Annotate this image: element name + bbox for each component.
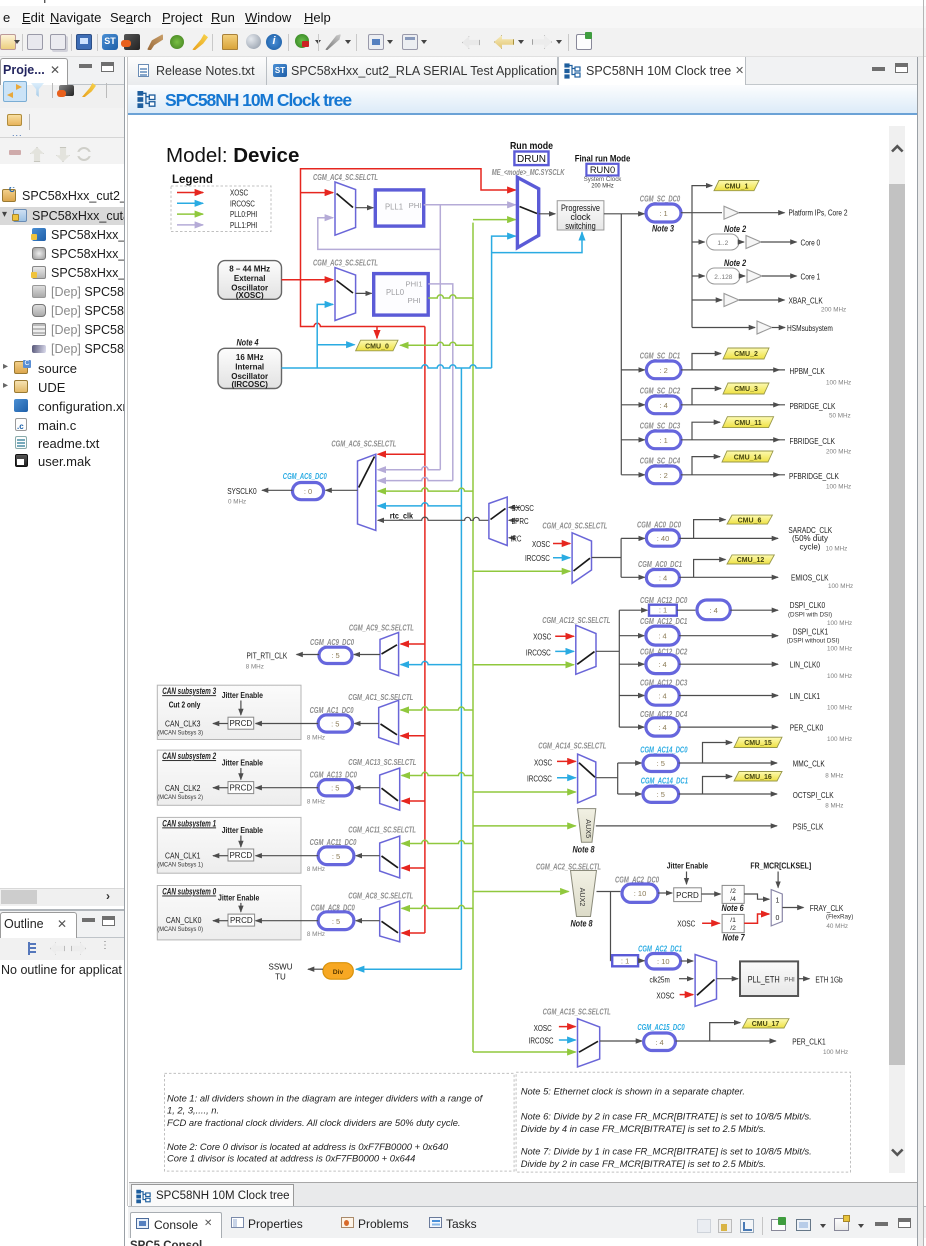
svg-text:8 MHz: 8 MHz [307, 735, 325, 742]
svg-text:: 1: : 1 [621, 956, 629, 965]
mux CGM_AC13_SC.SELCTL [348, 758, 416, 810]
svg-text:CGM_AC12_SC.SELCTL: CGM_AC12_SC.SELCTL [542, 616, 610, 625]
svg-text:CMU_6: CMU_6 [738, 517, 762, 524]
svg-text:FCD are fractional clock divid: FCD are fractional clock dividers. All c… [167, 1117, 461, 1128]
svg-text:: 1: : 1 [660, 436, 668, 445]
output LIN_CLK1 [790, 691, 852, 711]
output ETH 1Gb [798, 974, 843, 984]
svg-text:Divide by 4 in case FR_MCR[BIT: Divide by 4 in case FR_MCR[BITRATE] is s… [521, 1123, 766, 1134]
svg-text:cycle): cycle) [800, 542, 821, 551]
svg-text:100 MHz: 100 MHz [827, 673, 852, 680]
svg-text:: 5: : 5 [331, 720, 339, 729]
svg-text:100 MHz: 100 MHz [828, 583, 853, 590]
svg-text:RUN0: RUN0 [590, 165, 615, 175]
divider CGM_AC2_DC0 [615, 875, 672, 902]
svg-text:10 MHz: 10 MHz [826, 546, 848, 553]
svg-text:Note 5: Ethernet clock is show: Note 5: Ethernet clock is shown in a sep… [521, 1086, 745, 1097]
svg-text:: 1: : 1 [659, 209, 667, 218]
svg-text:Note 6: Note 6 [722, 903, 744, 913]
svg-text:: 40: : 40 [657, 534, 670, 543]
wire red branch to AC8 [402, 932, 425, 934]
output LIN_CLK0 [790, 660, 852, 680]
output PSI5_CLK [596, 821, 824, 831]
svg-text:DSPI_CLK1: DSPI_CLK1 [793, 627, 829, 637]
svg-text:PCRD: PCRD [676, 891, 699, 900]
svg-text:Final run Mode: Final run Mode [575, 153, 631, 163]
wire red branch to AC11 [402, 867, 425, 869]
divider CGM_AC1_DC0 [256, 706, 379, 742]
CMU_1 flag [714, 181, 759, 191]
svg-text:DRUN: DRUN [517, 154, 546, 165]
svg-text:PLL0: PLL0 [386, 287, 404, 297]
svg-text:: 4: : 4 [658, 692, 666, 701]
divider CGM_SC_DC2 [621, 387, 785, 414]
svg-text:Div: Div [333, 969, 344, 976]
wire XOSC branch into AC4 [301, 192, 334, 194]
wire XOSC trunk vertical [424, 327, 426, 934]
disabled row [0, 138, 124, 164]
svg-text:Note 4: Note 4 [236, 338, 258, 348]
run mode DRUN box [510, 140, 553, 165]
right console icons [697, 1219, 711, 1233]
svg-text:100 MHz: 100 MHz [823, 1049, 848, 1056]
buffer Platform [724, 206, 848, 219]
divider CGM_AC13_DC0 [256, 770, 380, 805]
svg-text:(MCAN Subsys 3): (MCAN Subsys 3) [157, 730, 203, 737]
divider Div SSWU [269, 962, 462, 981]
output MMC_CLK [793, 758, 844, 779]
svg-text:(DSPI with DSI): (DSPI with DSI) [788, 611, 832, 618]
svg-text:IRCOSC: IRCOSC [230, 199, 255, 208]
svg-text:PRCD: PRCD [229, 719, 252, 728]
divider /2 /4 Note 6 [722, 885, 770, 913]
svg-text:100 MHz: 100 MHz [826, 379, 851, 386]
svg-text:Note 7: Note 7 [723, 932, 746, 942]
CMU_0 monitor flag [356, 340, 398, 351]
svg-text:CGM_SC_DC4: CGM_SC_DC4 [640, 457, 681, 466]
mux ME_mode_MC.SYSCLK [492, 168, 566, 248]
divider CGM_AC14_DC1 [618, 777, 777, 803]
svg-text:: 4: : 4 [655, 1038, 663, 1047]
svg-text:Divide by 2 in case FR_MCR[BIT: Divide by 2 in case FR_MCR[BITRATE] is s… [521, 1158, 766, 1169]
wire lavender2 into AC6 [378, 477, 453, 480]
svg-text:Note 8: Note 8 [570, 919, 592, 929]
svg-text:CAN subsystem 3: CAN subsystem 3 [162, 685, 216, 696]
svg-text:40 MHz: 40 MHz [826, 923, 848, 930]
svg-text:CGM_AC9_DC0: CGM_AC9_DC0 [310, 638, 354, 647]
svg-text:CGM_AC15_SC.SELCTL: CGM_AC15_SC.SELCTL [543, 1008, 611, 1017]
svg-text:1..2: 1..2 [717, 240, 728, 247]
svg-text:XOSC: XOSC [533, 632, 551, 641]
wire green branch to AC12 [473, 664, 574, 666]
wire green branch to AUX2 [473, 891, 569, 893]
svg-text:(FlexRay): (FlexRay) [826, 914, 853, 921]
svg-text:CMU_12: CMU_12 [737, 557, 765, 564]
wire green branch to AUX5 [473, 825, 576, 827]
svg-text:: 4: : 4 [658, 723, 666, 732]
CMU_6 flag [727, 515, 772, 524]
svg-text:PBRIDGE_CLK: PBRIDGE_CLK [790, 401, 836, 411]
svg-text:200 MHz: 200 MHz [826, 449, 851, 456]
svg-text:PHI: PHI [408, 296, 421, 305]
svg-text:PLL0:PHI: PLL0:PHI [230, 210, 257, 219]
divider CGM_AC8_DC0 [256, 903, 380, 938]
svg-text:PFBRIDGE_CLK: PFBRIDGE_CLK [789, 471, 839, 481]
svg-text:SXOSC: SXOSC [512, 504, 535, 513]
svg-text:SYSCLK0: SYSCLK0 [227, 486, 257, 496]
wire IRCOSC main line [282, 365, 492, 368]
svg-text:CMU_17: CMU_17 [752, 1021, 780, 1028]
wire PLL0 PHI green to trunk and ME mux [428, 220, 515, 298]
svg-text:Jitter Enable: Jitter Enable [222, 759, 264, 768]
svg-text:Note 1: all dividers shown in: Note 1: all dividers shown in the diagra… [167, 1092, 484, 1103]
svg-text:: 4: : 4 [658, 632, 666, 641]
output SYSCLK0 [227, 486, 292, 505]
svg-text:: 4: : 4 [660, 401, 668, 410]
CMU_3 flag [723, 383, 769, 394]
wire PLL1 PHI lavender to ME mux [424, 204, 516, 206]
node Core0 divider [692, 213, 820, 328]
CMU_17 flag [742, 1019, 789, 1028]
mux CGM_AC11_SC.SELCTL [348, 826, 416, 878]
svg-text:200 MHz: 200 MHz [821, 307, 846, 314]
svg-text:/1: /1 [730, 917, 736, 924]
jitter enable label FlexRay [667, 862, 709, 885]
svg-text:8 MHz: 8 MHz [307, 931, 325, 938]
svg-text:Note 8: Note 8 [572, 844, 594, 854]
mux CGM_AC9_SC.SELCTL [349, 623, 414, 675]
svg-text:IRCOSC: IRCOSC [529, 1037, 554, 1046]
svg-text:0 MHz: 0 MHz [228, 498, 246, 505]
label FR_MCR[CLKSEL] [750, 862, 811, 888]
svg-text:AUX5: AUX5 [584, 819, 593, 838]
mux CGM_AC3_SC.SELCTL [313, 258, 378, 320]
PLL0 box [374, 274, 429, 316]
wire XOSC bottom run to trunk [301, 280, 425, 327]
svg-text:clk25m: clk25m [650, 975, 671, 984]
svg-text:CMU_0: CMU_0 [365, 343, 389, 350]
svg-text:CAN_CLK0: CAN_CLK0 [166, 915, 202, 925]
CAN subsystem 1 box [157, 817, 301, 873]
divider CGM_SC_DC0 [640, 195, 681, 234]
wire IRCOSC branch to CMU_0 left [317, 344, 354, 346]
bottom scrollbar of project view [0, 888, 124, 906]
output FBRIDGE_CLK [770, 436, 851, 456]
divider CGM_AC2_DC1 [611, 944, 693, 969]
wire green branch to AC8 [402, 905, 473, 908]
output PIT_RTI_CLK [246, 650, 319, 670]
progressive clock switching box [557, 201, 604, 231]
output PER_CLK1 [792, 1037, 848, 1056]
mux CGM_AC4_SC.SELCTL [313, 173, 378, 235]
wire XOSC arrow down into CMU_0 [376, 327, 378, 339]
divider CGM_SC_DC4 [621, 457, 785, 484]
svg-text:CGM_AC13_SC.SELCTL: CGM_AC13_SC.SELCTL [348, 758, 416, 767]
wire green into AC6 [378, 488, 473, 491]
wire cyan branch to AC9 [401, 661, 462, 664]
svg-text:CGM_SC_DC0: CGM_SC_DC0 [640, 195, 681, 204]
svg-text:CGM_AC14_SC.SELCTL: CGM_AC14_SC.SELCTL [538, 742, 606, 751]
svg-text:CGM_AC13_DC0: CGM_AC13_DC0 [310, 770, 358, 779]
svg-text:100 MHz: 100 MHz [827, 704, 852, 711]
CMU_14 flag [722, 451, 773, 462]
oscillator XOSC box [218, 261, 282, 301]
output FRAY_CLK [782, 903, 853, 930]
note 4 label [236, 338, 258, 348]
wire red branch to AC13 [402, 800, 425, 802]
svg-text:/2: /2 [730, 888, 736, 895]
wire PLL1:PHI lavender trunk [439, 249, 441, 469]
wire AC14 output tee [596, 763, 618, 794]
CAN subsystem 2 box [157, 750, 301, 805]
CMU_12 flag [727, 555, 774, 564]
console [128, 1206, 926, 1246]
svg-text:/4: /4 [730, 896, 736, 903]
CAN subsystem 3 box [157, 685, 301, 739]
svg-text:CGM_AC14_DC1: CGM_AC14_DC1 [641, 777, 689, 786]
divider CGM_AC0_DC0 [621, 520, 778, 547]
svg-text:CAN_CLK3: CAN_CLK3 [165, 719, 201, 729]
node Core1 divider [692, 258, 820, 284]
svg-text:: 5: : 5 [657, 790, 665, 799]
svg-text:PLL1: PLL1 [385, 202, 403, 212]
svg-text:CGM_AC15_DC0: CGM_AC15_DC0 [637, 1023, 685, 1032]
mux AUX2 CGM_AC2_SC.SELCTL [536, 862, 601, 928]
wire XOSC red frame: up-over to ME mux and bottom run [301, 169, 516, 280]
output OCTSPI_CLK [793, 790, 844, 810]
svg-text:: 4: : 4 [659, 574, 667, 583]
svg-text:CGM_AC3_SC.SELCTL: CGM_AC3_SC.SELCTL [313, 258, 378, 267]
svg-text:CMU_14: CMU_14 [734, 454, 762, 461]
output PER_CLK0 [790, 723, 852, 743]
svg-text:PRCD: PRCD [229, 851, 252, 860]
PLL1 box [375, 190, 423, 226]
svg-text:FRAY_CLK: FRAY_CLK [810, 903, 844, 913]
svg-text:XOSC: XOSC [532, 540, 550, 549]
wire progressive output to SC_DC0 [604, 213, 645, 215]
output PBRIDGE_CLK [770, 401, 851, 420]
wire AC12 output tee [596, 610, 619, 727]
svg-text:ETH 1Gb: ETH 1Gb [815, 974, 843, 984]
svg-text:CGM_SC_DC1: CGM_SC_DC1 [640, 352, 681, 361]
svg-text:FBRIDGE_CLK: FBRIDGE_CLK [790, 436, 836, 446]
svg-text:CAN subsystem 0: CAN subsystem 0 [162, 886, 216, 897]
svg-text:PER_CLK1: PER_CLK1 [792, 1037, 826, 1047]
editor tabs [128, 57, 918, 85]
wire green branch to AC11 [402, 840, 473, 843]
svg-text:CMU_2: CMU_2 [734, 351, 758, 358]
svg-text:PER_CLK0: PER_CLK0 [790, 723, 824, 733]
divider CGM_AC11_DC0 [256, 838, 380, 873]
output DSPI_CLK1 [787, 627, 853, 653]
mux CGM_AC8_SC.SELCTL [348, 891, 413, 942]
mux AUX5 [572, 809, 595, 855]
svg-text:CGM_AC0_DC1: CGM_AC0_DC1 [638, 560, 682, 569]
svg-text:IRCOSC: IRCOSC [527, 774, 552, 783]
svg-text:HPBM_CLK: HPBM_CLK [790, 366, 826, 376]
mux rtc source [489, 497, 534, 546]
svg-text:Jitter Enable: Jitter Enable [218, 893, 260, 902]
svg-text:(MCAN Subsys 2): (MCAN Subsys 2) [157, 794, 203, 801]
wire green branch to AC14 [473, 791, 576, 793]
wire XOSC output to AC3 mux [282, 279, 334, 281]
wire ME mux output [539, 213, 556, 215]
divider CGM_AC12_DC0 [619, 596, 778, 620]
svg-text:AUX2: AUX2 [578, 888, 587, 907]
svg-text:CGM_AC8_SC.SELCTL: CGM_AC8_SC.SELCTL [348, 891, 413, 900]
divider CGM_AC15_DC0 [600, 1023, 776, 1051]
buffer XBAR [692, 294, 846, 314]
divider CGM_AC12_DC4 [619, 710, 778, 736]
svg-text:XOSC: XOSC [534, 1024, 552, 1033]
svg-text:CGM_AC0_SC.SELCTL: CGM_AC0_SC.SELCTL [542, 521, 607, 530]
svg-text:: 4: : 4 [658, 660, 666, 669]
divider CGM_AC0_DC1 [621, 560, 778, 586]
view toolbar row2 [0, 108, 124, 137]
svg-text:Note 2: Note 2 [724, 258, 746, 268]
wire IRCOSC up branch to AC3 and CMU_0 [317, 304, 333, 368]
svg-text:: 5: : 5 [331, 784, 339, 793]
CMU_2 flag [723, 348, 769, 359]
svg-text:CAN subsystem 1: CAN subsystem 1 [162, 817, 216, 828]
CMU_16 flag [734, 772, 782, 782]
svg-text:PHI1: PHI1 [406, 280, 423, 289]
svg-text:8 MHz: 8 MHz [307, 798, 325, 805]
svg-text:OCTSPI_CLK: OCTSPI_CLK [793, 790, 834, 800]
svg-text:: 5: : 5 [331, 651, 339, 660]
wire PLL0 PHI1 lavender trunk [428, 284, 453, 481]
wire AC0 output tee [592, 538, 622, 577]
svg-text:CMU_11: CMU_11 [734, 420, 761, 427]
svg-text:IRC: IRC [511, 534, 522, 543]
wire SC divider feed vertical [620, 214, 622, 475]
mux CGM_AC12_SC.SELCTL [526, 616, 611, 674]
divider CGM_AC14_DC0 [618, 743, 777, 772]
mux CGM_AC15_SC.SELCTL [529, 1008, 611, 1067]
svg-text:PLL_ETH: PLL_ETH [748, 974, 780, 984]
svg-text:CAN_CLK1: CAN_CLK1 [165, 850, 201, 860]
svg-text:LIN_CLK0: LIN_CLK0 [790, 660, 820, 670]
svg-text:Cut 2 only: Cut 2 only [169, 701, 201, 710]
svg-text:SSWU: SSWU [269, 962, 293, 971]
wire AC3 output to PLL0 [356, 292, 372, 294]
svg-text:PRCD: PRCD [229, 783, 252, 792]
PLL_ETH box [717, 961, 799, 996]
svg-text:: 2: : 2 [660, 471, 668, 480]
svg-text:Note 2: Note 2 [724, 224, 746, 234]
legend box [171, 174, 271, 232]
svg-text:200 MHz: 200 MHz [591, 183, 613, 190]
notes box left [165, 1073, 515, 1171]
svg-text:XOSC: XOSC [656, 992, 674, 1001]
svg-text:XOSC: XOSC [534, 758, 552, 767]
svg-text:CMU_3: CMU_3 [734, 386, 758, 393]
svg-text:PHI: PHI [409, 201, 422, 210]
svg-text:16 MHz: 16 MHz [236, 353, 264, 362]
menu bar [0, 6, 926, 28]
svg-text:CMU_15: CMU_15 [744, 740, 772, 747]
svg-text:CGM_AC0_DC0: CGM_AC0_DC0 [637, 520, 681, 529]
svg-text:8 MHz: 8 MHz [307, 866, 325, 873]
svg-text:rtc_clk: rtc_clk [390, 510, 413, 520]
wire red into AC6 [378, 453, 425, 455]
wire AUX2 output tee [597, 892, 621, 961]
svg-text:: 2: : 2 [660, 366, 668, 375]
svg-text:100 MHz: 100 MHz [827, 620, 852, 627]
svg-text:CGM_AC6_DC0: CGM_AC6_DC0 [283, 472, 327, 481]
window title bar (clipped) [0, 0, 926, 4]
output EMIOS_CLK [791, 572, 853, 589]
svg-text:IRCOSC: IRCOSC [525, 554, 550, 563]
svg-text:CMU_16: CMU_16 [744, 774, 772, 781]
svg-text:Jitter Enable: Jitter Enable [222, 691, 264, 700]
svg-text:: 4: : 4 [709, 606, 717, 615]
svg-text:: 0: : 0 [304, 487, 312, 496]
svg-text:FR_MCR[CLKSEL]: FR_MCR[CLKSEL] [750, 862, 811, 871]
svg-text:Core 1: Core 1 [801, 271, 821, 281]
svg-text:/2: /2 [730, 925, 736, 932]
svg-text:: 5: : 5 [332, 917, 340, 926]
svg-text:Legend: Legend [172, 174, 213, 186]
svg-text:8 MHz: 8 MHz [825, 803, 843, 810]
output SARADC_CLK [788, 525, 847, 553]
svg-text:Note 6: Divide by 2 in case FR: Note 6: Divide by 2 in case FR_MCR[BITRA… [521, 1111, 812, 1122]
svg-text:Jitter Enable: Jitter Enable [667, 862, 709, 871]
svg-text:LIN_CLK1: LIN_CLK1 [790, 691, 820, 701]
wire green branch to AC13 [402, 772, 473, 775]
divider CGM_AC6_DC0 [283, 472, 358, 500]
svg-text:Note 7: Divide by 1 in case FR: Note 7: Divide by 1 in case FR_MCR[BITRA… [521, 1145, 812, 1156]
svg-text:(IRCOSC): (IRCOSC) [231, 380, 268, 389]
wire DC0 output with CMU_1 branch [681, 186, 722, 213]
svg-text:50 MHz: 50 MHz [829, 413, 851, 420]
svg-text:: 5: : 5 [657, 759, 665, 768]
svg-text:PIT_RTI_CLK: PIT_RTI_CLK [247, 650, 288, 660]
divider CGM_SC_DC1 [621, 352, 785, 379]
wire green branch to AC1 [401, 707, 473, 710]
outline panel [0, 911, 124, 938]
divider CGM_AC9_DC0 [310, 638, 380, 664]
wire red branch to AC1 [401, 735, 425, 737]
output HPBM_CLK [770, 366, 851, 387]
editor scrollbar arrows [892, 146, 903, 1155]
output DSPI_CLK0 [788, 600, 852, 627]
svg-text:Internal: Internal [235, 362, 264, 371]
svg-text:: 10: : 10 [657, 957, 670, 966]
mux CGM_AC14_SC.SELCTL [527, 742, 606, 803]
wire AC4 output to PLL1 [356, 207, 374, 209]
svg-text:100 MHz: 100 MHz [827, 646, 852, 653]
wire green branch to AC15 [473, 1051, 576, 1053]
mux FRAY select [771, 890, 782, 926]
svg-text:DSPI_CLK0: DSPI_CLK0 [790, 600, 826, 610]
svg-text:XOSC: XOSC [230, 189, 248, 198]
final run mode RUN0 box [575, 153, 631, 189]
wire cyan into AC6 [378, 503, 462, 506]
svg-text:(DSPI without DSI): (DSPI without DSI) [787, 637, 840, 644]
svg-text:Core 0: Core 0 [801, 237, 821, 247]
svg-text:CGM_SC_DC3: CGM_SC_DC3 [640, 422, 681, 431]
output PFBRIDGE_CLK [770, 471, 851, 491]
divider CGM_SC_DC3 [621, 422, 785, 449]
svg-text:(XOSC): (XOSC) [236, 291, 264, 300]
mux CGM_AC6_SC.SELCTL [331, 440, 396, 531]
svg-text:0: 0 [776, 915, 780, 922]
svg-text:: 10: : 10 [634, 889, 647, 898]
svg-text:1: 1 [776, 898, 780, 905]
svg-text:LPRC: LPRC [512, 517, 529, 526]
svg-text:XOSC: XOSC [677, 920, 695, 929]
